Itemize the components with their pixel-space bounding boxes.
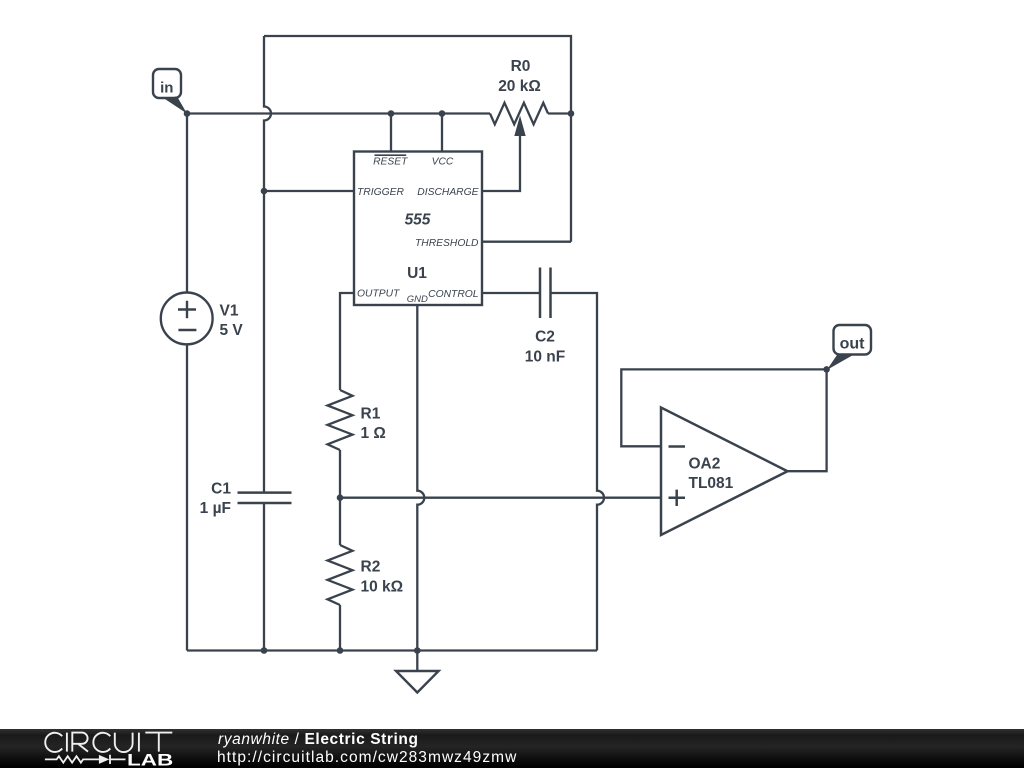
svg-text:C1: C1 xyxy=(211,481,231,498)
wire trigger branch vertical with hop xyxy=(264,36,271,492)
wire control to C2 xyxy=(482,292,540,294)
logo diode triangle xyxy=(99,755,109,764)
RESET overline xyxy=(375,154,407,156)
junction node R0 right xyxy=(568,110,575,117)
capacitor C1 plates xyxy=(238,493,292,503)
CircuitLab logo xyxy=(0,728,200,768)
svg-text:1 µF: 1 µF xyxy=(200,500,231,517)
junction node R2 bottom xyxy=(337,647,344,654)
svg-text:R1: R1 xyxy=(361,406,381,423)
ground symbol xyxy=(396,671,439,693)
wire V1 bottom xyxy=(186,344,188,650)
svg-text:OUTPUT: OUTPUT xyxy=(357,288,400,299)
junction node reset xyxy=(388,110,395,117)
flag in tail xyxy=(164,96,187,113)
wire in node horizontal xyxy=(187,112,490,114)
potentiometer R0 wiper arrow xyxy=(514,116,525,137)
wire R0 right segment xyxy=(548,112,571,114)
voltage source V1 xyxy=(161,293,213,345)
flag out tail xyxy=(827,355,853,370)
svg-text:V1: V1 xyxy=(220,302,239,319)
wire threshold xyxy=(482,241,571,243)
flag in box xyxy=(153,69,181,98)
logo squiggle resistor diode xyxy=(45,755,126,764)
svg-text:RESET: RESET xyxy=(373,156,408,167)
junction node out xyxy=(823,366,830,373)
svg-text:LAB: LAB xyxy=(127,750,173,768)
svg-text:5 V: 5 V xyxy=(220,322,244,339)
wire opamp output xyxy=(788,369,827,471)
wire V1 top xyxy=(186,114,188,293)
wire C2 right with hop xyxy=(551,293,605,651)
footer title xyxy=(218,731,419,749)
capacitor C2 plates xyxy=(540,268,551,319)
wire output xyxy=(340,293,354,390)
wire bottom rail xyxy=(187,649,597,651)
wire reset drop xyxy=(390,114,392,152)
op-amp OA2 triangle xyxy=(661,408,788,536)
op-amp plus sign xyxy=(669,490,686,506)
svg-text:R0: R0 xyxy=(511,58,531,75)
wire vcc drop xyxy=(441,114,443,152)
flag out box xyxy=(834,325,872,355)
svg-text:10 kΩ: 10 kΩ xyxy=(361,578,404,595)
op-amp minus sign xyxy=(669,445,686,448)
junction node vcc xyxy=(439,110,446,117)
svg-text:555: 555 xyxy=(405,212,431,229)
wire R1 bottom to junction xyxy=(339,450,341,498)
svg-text:out: out xyxy=(840,336,866,353)
wire trigger xyxy=(264,190,354,192)
svg-text:in: in xyxy=(160,80,173,97)
svg-text:R2: R2 xyxy=(361,559,381,576)
svg-text:U1: U1 xyxy=(407,265,427,282)
svg-text:C2: C2 xyxy=(535,329,555,346)
wire C1 bottom xyxy=(263,503,265,651)
wire R2 bottom xyxy=(339,605,341,651)
wire ground stub xyxy=(416,651,418,672)
svg-text:20 kΩ: 20 kΩ xyxy=(498,78,541,95)
resistor R1 xyxy=(328,390,353,450)
svg-text:1 Ω: 1 Ω xyxy=(361,425,386,442)
resistor R2 xyxy=(328,545,353,605)
footer url xyxy=(217,749,517,767)
IC U1 555 box xyxy=(354,152,482,306)
svg-text:TRIGGER: TRIGGER xyxy=(357,187,404,198)
wire inverting feedback xyxy=(621,369,826,446)
svg-text:THRESHOLD: THRESHOLD xyxy=(415,238,479,249)
junction node trigger xyxy=(261,188,268,195)
svg-text:DISCHARGE: DISCHARGE xyxy=(417,187,478,198)
svg-text:TL081: TL081 xyxy=(689,475,734,492)
svg-text:VCC: VCC xyxy=(432,156,454,167)
junction node in xyxy=(184,110,191,117)
wire R2 top xyxy=(339,498,341,545)
resistor R0 xyxy=(490,103,548,125)
wire discharge to wiper xyxy=(482,136,520,191)
footer bar xyxy=(0,729,1024,768)
junction node gnd rail xyxy=(414,647,421,654)
svg-text:GND: GND xyxy=(407,294,428,305)
junction node R1 R2 xyxy=(337,494,344,501)
wire gnd pin with hop xyxy=(417,305,424,651)
logo word CIRCUIT xyxy=(45,733,172,753)
junction node C1 bottom xyxy=(261,647,268,654)
wire noninverting rail xyxy=(340,497,661,499)
svg-text:OA2: OA2 xyxy=(689,456,721,473)
svg-text:CONTROL: CONTROL xyxy=(428,289,478,300)
wire top loop xyxy=(264,36,571,242)
svg-text:10 nF: 10 nF xyxy=(525,348,565,365)
